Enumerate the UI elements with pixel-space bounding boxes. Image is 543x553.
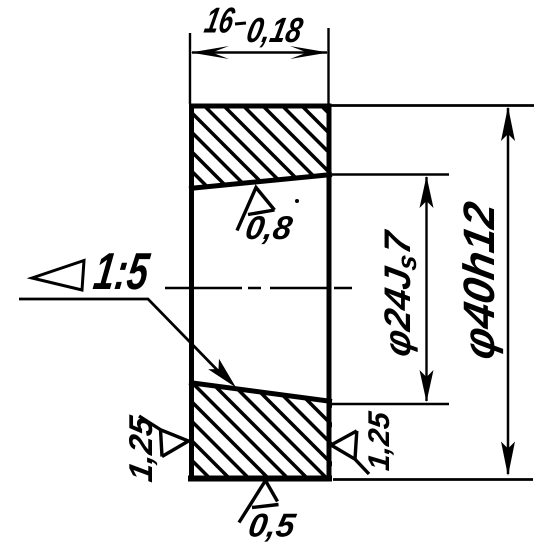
svg-text:φ40h12: φ40h12 xyxy=(455,198,504,363)
centerline xyxy=(165,287,352,290)
svg-text:φ24Js7: φ24Js7 xyxy=(376,226,422,360)
dim 16 tolerance text xyxy=(243,10,306,49)
taper leader arrowhead xyxy=(208,359,236,388)
dim 16 value text xyxy=(201,0,238,40)
roughness 1,25 right check mark xyxy=(331,431,369,474)
taper value text 1:5 xyxy=(90,242,153,300)
dim 16 extension line right xyxy=(327,28,329,104)
dia24 extension line top xyxy=(332,173,449,175)
dia40 extension line top xyxy=(331,104,534,107)
taper leader line xyxy=(19,299,226,379)
roughness 1,25 right text xyxy=(363,409,396,472)
dia40 arrow down xyxy=(501,442,515,477)
tapered bore upper edge xyxy=(189,175,332,189)
tapered bore lower edge xyxy=(189,383,332,402)
outline left edge xyxy=(189,104,194,482)
roughness 0,8 check mark xyxy=(237,188,275,231)
dia24 arrow down xyxy=(420,370,434,402)
dia40 dimension line xyxy=(507,108,510,474)
dia24 extension line bottom xyxy=(332,403,449,405)
dim 16 arrow left xyxy=(191,46,230,59)
dia40 extension line bottom xyxy=(333,478,533,481)
svg-text:0,18: 0,18 xyxy=(243,10,306,49)
dia40 value text xyxy=(455,198,504,363)
dim 16 dimension line xyxy=(192,51,327,54)
hatching upper section xyxy=(96,95,445,210)
roughness 0,5 text xyxy=(246,508,299,545)
dim 16 extension line left xyxy=(189,33,191,104)
roughness 1,25 left check mark xyxy=(139,416,189,457)
outline top edge xyxy=(189,104,332,109)
speckle xyxy=(295,199,299,203)
dia24 arrow up xyxy=(420,176,434,208)
dia24 dimension line xyxy=(425,177,427,401)
outline bottom edge xyxy=(188,476,332,482)
hatching lower section xyxy=(84,372,438,492)
roughness 1,25 left text xyxy=(123,413,160,484)
dia40 arrow up xyxy=(501,107,515,142)
svg-text:1:5: 1:5 xyxy=(90,242,153,300)
svg-text:1,25: 1,25 xyxy=(363,409,396,472)
svg-text:0,5: 0,5 xyxy=(246,508,299,545)
roughness 0,5 check mark xyxy=(239,481,279,523)
dim 16 arrow right xyxy=(290,46,329,59)
taper symbol triangle xyxy=(32,261,84,291)
dia24 value text xyxy=(376,226,422,360)
svg-text:0,8: 0,8 xyxy=(243,210,296,247)
outline right edge xyxy=(327,104,332,482)
svg-text:1,25: 1,25 xyxy=(123,413,160,484)
dim 16 tolerance minus xyxy=(235,23,246,24)
roughness 0,8 text xyxy=(243,210,296,247)
